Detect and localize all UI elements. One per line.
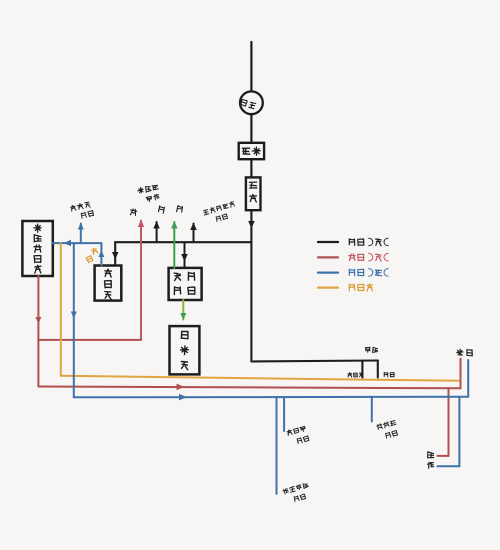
kitchen sink cold tap (冷) [156, 222, 158, 242]
wire: valve to prefilter [250, 159, 252, 177]
hot tap riser (热, red) [140, 221, 142, 340]
legend: cold exposed [318, 272, 338, 274]
label 冷水 [384, 372, 388, 377]
main valve box 总阀 [239, 143, 264, 159]
drop into under-sink purifier [184, 242, 186, 268]
disposal tap riser [193, 224, 195, 243]
legend: cold concealed [318, 241, 338, 243]
washer stub [361, 361, 363, 378]
wire: main supply from top [250, 42, 252, 91]
pipeline machine box 管线机 [170, 326, 200, 374]
label 墩布池上水 [377, 424, 383, 430]
wire: prefilter down trunk [250, 210, 252, 361]
label 热 [131, 209, 137, 216]
label 马桶 [365, 347, 370, 352]
cold stub end [377, 361, 379, 378]
hot main to bathroom (red) [38, 387, 460, 389]
blue drop: washstand [283, 397, 285, 431]
water heater box 燃气热水器 [22, 221, 52, 276]
pipeline dispenser feed (lime) [182, 300, 184, 320]
water meter (circle 水表) [240, 91, 263, 114]
label 洗碗机上水 (slanted) [71, 206, 76, 212]
wire: meter to main valve [250, 114, 252, 143]
heater hot out, down (red) [37, 276, 39, 387]
wire: drop into softener [114, 242, 116, 265]
label 智能马桶上水 [283, 489, 289, 494]
return line run (orange) [61, 376, 459, 381]
dishwasher riser (blue) [80, 224, 82, 244]
blue drop: smart toilet [276, 397, 278, 494]
blue drop to basin [458, 397, 460, 466]
label 洗漱台上水 [287, 430, 292, 435]
return line riser (orange) [60, 244, 62, 376]
hot riser to shower 花洒 (red) [460, 359, 462, 389]
hot branch to kitchen (red) [38, 339, 141, 341]
legend: hot concealed [318, 256, 338, 258]
blue drop: mop pool [371, 397, 373, 422]
wire: kitchen header (cold, concealed) [115, 241, 251, 243]
softened water out (blue) [100, 243, 102, 265]
arrow into softener [112, 252, 119, 260]
label 垃圾处理器上水 (slanted) [203, 210, 208, 216]
arrow down on trunk [248, 221, 255, 229]
blue header to heater [53, 242, 102, 244]
label 软水 (orange, rotated) [92, 248, 98, 254]
label 洗衣机 [348, 373, 352, 377]
label 净 [177, 206, 183, 213]
label 不锈钢台盆 (slanted) [138, 188, 143, 194]
purified water riser (净, green) [173, 222, 175, 268]
softener box 软水机 [95, 266, 122, 301]
toilet/washer header (black) [251, 361, 377, 362]
blue riser to shower [467, 360, 469, 397]
prefilter box 前置 [246, 177, 261, 210]
legend: return unit [318, 287, 338, 289]
under-sink purifier box 厨下净水 [169, 268, 202, 300]
label 花洒 [457, 349, 463, 355]
label 手盆 (vertical) [428, 452, 434, 458]
label 冷 [159, 206, 165, 213]
cold exposed main run (blue) [74, 396, 468, 399]
hot drop to basin (red) [448, 388, 450, 456]
cold exposed from header, down (blue) [73, 243, 75, 397]
